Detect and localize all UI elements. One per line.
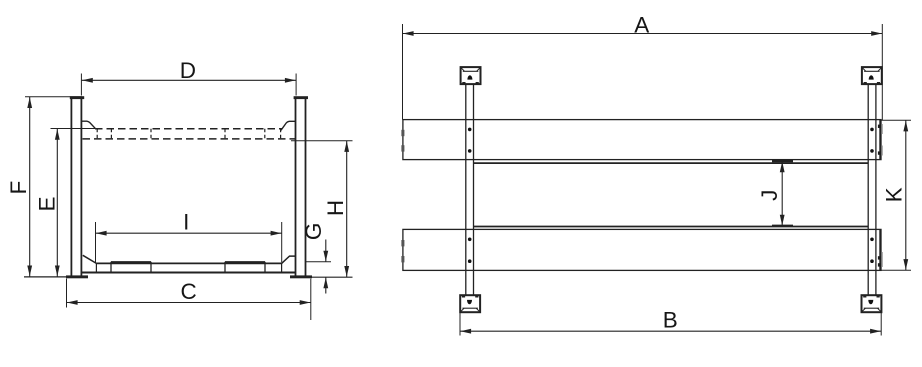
plan view: bottom runway left edge tabs xyxy=(401,240,404,262)
plan view: top runway inner lip line xyxy=(474,162,868,164)
svg-text:K: K xyxy=(882,187,907,202)
plan view: bottom runway right clamp nubs xyxy=(878,256,881,266)
front view: raised platform dashed bottom line xyxy=(83,138,296,140)
front view: right post top cap xyxy=(294,96,308,99)
front view: lowered platform left end rib xyxy=(95,263,97,272)
front view: ground line right xyxy=(312,276,353,278)
plan view: post bottom-right xyxy=(862,295,882,312)
plan view: top runway right clamp nubs xyxy=(878,125,881,155)
front view: lowered platform bottom line xyxy=(82,272,296,274)
plan view: post bottom-left xyxy=(460,295,480,312)
front view: raised platform dashed rib lines xyxy=(97,129,280,139)
dimension C line with arrows xyxy=(67,302,311,304)
front view: ground line left xyxy=(24,276,66,278)
front view: raised platform dashed top line xyxy=(95,128,282,130)
dimension D extension lines xyxy=(81,74,296,96)
plan view: top runway outline xyxy=(403,120,881,160)
front view: left base plate xyxy=(66,275,88,278)
dimension G extension line xyxy=(306,261,331,263)
svg-text:I: I xyxy=(183,210,189,235)
dimension B line with arrows xyxy=(460,330,881,332)
plan view: rail bolts xyxy=(468,128,874,263)
plan view: top runway right end cap xyxy=(879,120,881,160)
dimension A line with arrows xyxy=(403,33,882,35)
dimension K extension lines xyxy=(881,120,911,270)
front view: lowered platform right ramp slant xyxy=(282,256,296,263)
dimension H extension line xyxy=(291,140,353,142)
svg-text:E: E xyxy=(34,196,59,211)
plan view: right cross rail xyxy=(868,84,876,295)
front view: lowered platform left ramp slant xyxy=(83,255,97,263)
dimension H line with arrows xyxy=(346,141,348,277)
dimension E line with arrows xyxy=(56,129,58,277)
plan view: top runway left edge tabs xyxy=(401,130,404,152)
plan view: bottom runway right side tabs xyxy=(881,252,883,267)
dimension G lower leader with up arrow xyxy=(325,277,327,293)
dimension J line with arrows xyxy=(781,161,783,225)
plan view: bottom runway outline xyxy=(403,229,881,270)
plan view: top runway right side tabs xyxy=(881,124,883,156)
dimension F extension line xyxy=(25,96,82,98)
plan view: post top-right xyxy=(862,67,882,85)
plan view: bottom runway right end cap xyxy=(879,229,881,270)
svg-text:F: F xyxy=(6,181,31,195)
dimension B extension lines xyxy=(460,313,881,336)
dimension C extension lines xyxy=(67,279,311,320)
svg-text:G: G xyxy=(301,223,326,241)
plan view: left cross rail xyxy=(466,84,474,295)
dimension I extension lines xyxy=(96,222,282,263)
svg-text:A: A xyxy=(634,13,649,38)
front view: lowered platform right end rib xyxy=(281,263,283,273)
front view: lowered platform right tread block xyxy=(225,262,265,273)
svg-text:J: J xyxy=(757,190,782,201)
dimension K line with arrows xyxy=(905,120,907,270)
dimension D line with arrows xyxy=(82,79,296,81)
front view: left latch hook (solid) xyxy=(82,121,96,128)
front view: right base plate xyxy=(290,275,312,278)
dimension E extension line xyxy=(51,128,96,130)
front view: right latch hook (solid) xyxy=(281,121,296,130)
dimension G upper leader with down arrow xyxy=(325,240,327,262)
plan view: post top-left xyxy=(461,67,481,85)
dimension F line with arrows xyxy=(29,97,31,277)
svg-text:B: B xyxy=(663,308,678,333)
front view: left post top cap xyxy=(70,96,84,99)
front view: lowered platform left tread block xyxy=(111,262,151,273)
arrowheads for all dimension lines xyxy=(27,31,908,334)
front view: left post column xyxy=(71,99,81,276)
svg-text:H: H xyxy=(323,200,348,216)
front view: lowered platform deck line xyxy=(96,262,281,264)
dimension A extension lines xyxy=(403,24,883,120)
plan view: bottom runway inner lip line xyxy=(474,226,868,228)
svg-text:C: C xyxy=(180,279,196,304)
svg-text:D: D xyxy=(180,58,196,83)
dimension J tick marks xyxy=(772,161,793,226)
front view: right post column xyxy=(296,99,306,276)
dimension I line with arrows xyxy=(96,232,282,234)
